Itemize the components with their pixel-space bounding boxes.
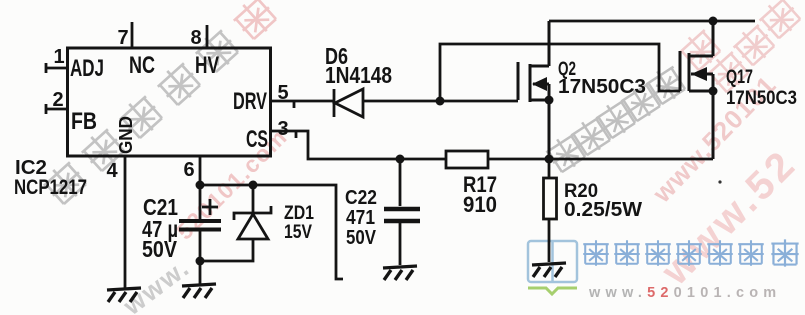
pin 8 wire [206,25,209,48]
svg-text:17N50C3: 17N50C3 [726,88,797,109]
pin 1 wire [46,63,67,73]
capacitor C22 [384,209,420,221]
pin 7 wire [131,22,134,48]
transistor Q2 [518,21,549,159]
node Q17 source junction [709,87,718,96]
svg-text:15V: 15V [284,222,312,243]
wire C22 drop [399,159,402,206]
resistor R20 [544,178,557,219]
ground for pin 4 [107,288,141,302]
wire top rail [549,20,755,23]
node Vcc junction at pin 6 [196,181,205,190]
wire Vcc to ZD1 and right [200,185,343,279]
svg-text:1: 1 [53,46,64,68]
resistor R17 [446,151,488,168]
zener ZD1 [200,185,271,261]
node C21 bottom junction [196,257,205,266]
ground for C21 [182,284,216,298]
wire CS pin [270,131,446,159]
node top rail junction [709,17,718,26]
svg-text:471: 471 [346,207,375,229]
node gate junction [436,97,445,106]
wire DRV to D6 [270,101,334,108]
svg-text:GND: GND [116,116,136,154]
svg-text:FB: FB [71,108,97,135]
wire CS line right [488,158,713,161]
svg-text:www.520101.com: www.520101.com [588,285,781,301]
svg-text:8: 8 [190,27,201,49]
transistor Q17 [680,21,713,159]
svg-text:17N50C3: 17N50C3 [558,76,646,98]
svg-text:NC: NC [129,52,155,79]
svg-text:C22: C22 [345,187,377,209]
pin 4 wire [124,156,127,288]
svg-text:910: 910 [463,192,497,217]
ground for C22 [383,266,417,280]
diode D6 [334,89,363,117]
pin 6 wire [199,156,202,221]
pin 2 wire [46,104,67,114]
svg-text:0.25/5W: 0.25/5W [564,199,642,221]
svg-text:50V: 50V [346,227,377,249]
wire R20 top [548,159,551,178]
svg-text:1N4148: 1N4148 [325,62,392,88]
Q2 arrow [532,77,547,91]
wire C21 to ground [199,231,202,284]
C21 plus sign [202,199,218,215]
IC IC2 NCP1217 box [68,48,271,156]
ground for R20 [532,263,566,277]
svg-text:CS: CS [246,126,268,153]
node ZD1 top junction [249,181,258,190]
node C22 junction [396,155,405,164]
svg-text:7: 7 [117,27,128,49]
svg-text:HV: HV [195,52,219,79]
node Q2 source junction [545,96,554,105]
svg-text:ADJ: ADJ [70,55,104,82]
capacitor C21 [179,221,221,230]
svg-text:4: 4 [106,160,118,182]
wire gate riser to Q17 [440,44,680,101]
svg-text:DRV: DRV [233,88,267,115]
wire C22 to ground [399,223,402,265]
Q17 arrow [691,67,707,81]
svg-text:6: 6 [183,159,194,181]
node R20 junction [545,155,554,164]
svg-text:50V: 50V [142,236,178,262]
wire D6 to Q2 gate [363,100,518,103]
svg-text:NCP1217: NCP1217 [14,176,87,199]
wire R20 to ground [548,219,551,262]
svg-text:ZD1: ZD1 [284,203,314,224]
svg-text:Q17: Q17 [726,67,753,88]
svg-text:3: 3 [277,118,288,140]
